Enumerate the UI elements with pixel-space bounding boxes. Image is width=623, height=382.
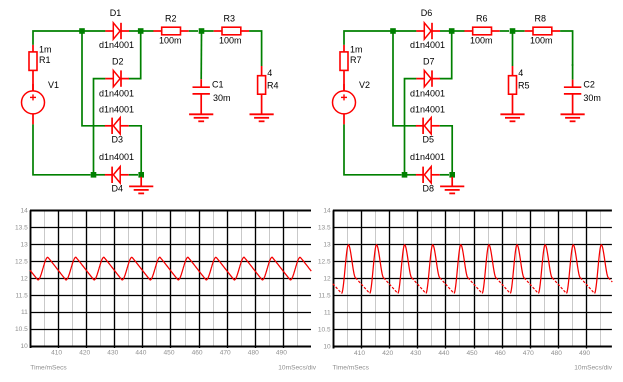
svg-text:440: 440	[135, 350, 146, 357]
resistor R2 (100m)	[153, 27, 188, 35]
svg-text:30m: 30m	[583, 93, 601, 103]
svg-text:Time/mSecs: Time/mSecs	[333, 364, 370, 371]
diode D7	[416, 70, 440, 86]
wire	[189, 30, 198, 32]
diode D4	[105, 167, 129, 183]
svg-text:10mSecs/div: 10mSecs/div	[278, 364, 316, 371]
node A2 junction	[390, 28, 396, 34]
wire	[143, 30, 154, 32]
node B1 junction	[138, 28, 144, 34]
svg-text:430: 430	[410, 350, 421, 357]
svg-text:R1: R1	[39, 55, 51, 65]
svg-text:1m: 1m	[350, 44, 363, 54]
resistor R7 (1m)	[340, 45, 348, 92]
wire	[33, 31, 82, 45]
right graph y-axis labels	[318, 208, 331, 351]
wire	[200, 34, 202, 80]
left graph waveform trace	[30, 257, 311, 280]
left graph panel	[15, 207, 317, 371]
diode D1	[105, 23, 129, 39]
svg-text:10.5: 10.5	[15, 326, 28, 333]
svg-text:450: 450	[466, 350, 477, 357]
ground (C1)	[189, 114, 213, 121]
wire	[440, 174, 449, 176]
ground (C2)	[561, 114, 585, 121]
wire	[249, 31, 262, 66]
svg-text:R4: R4	[267, 81, 279, 91]
svg-text:430: 430	[107, 350, 118, 357]
svg-text:R2: R2	[165, 14, 177, 24]
svg-text:420: 420	[79, 350, 90, 357]
svg-text:10: 10	[323, 344, 331, 351]
svg-text:100m: 100m	[159, 35, 182, 45]
svg-text:d1n4001: d1n4001	[410, 88, 445, 98]
svg-text:12: 12	[20, 275, 28, 282]
ground (R4)	[250, 114, 274, 121]
svg-text:12: 12	[323, 276, 331, 283]
svg-text:450: 450	[163, 350, 174, 357]
wire	[94, 79, 106, 175]
svg-text:11: 11	[21, 309, 28, 316]
svg-text:C1: C1	[212, 80, 224, 90]
left rectifier circuit	[22, 8, 279, 194]
right graph waveform trace	[342, 245, 609, 294]
svg-text:440: 440	[438, 350, 449, 357]
svg-text:11.5: 11.5	[15, 292, 28, 299]
svg-text:d1n4001: d1n4001	[99, 88, 134, 98]
svg-text:480: 480	[248, 350, 259, 357]
svg-text:R3: R3	[224, 14, 236, 24]
resistor R8 (100m)	[525, 27, 560, 35]
svg-text:R8: R8	[535, 14, 547, 24]
wire	[407, 174, 416, 176]
svg-text:420: 420	[382, 350, 393, 357]
svg-text:4: 4	[267, 68, 272, 78]
left graph x-axis labels	[51, 350, 287, 357]
ground (R5)	[500, 114, 524, 121]
svg-text:d1n4001: d1n4001	[99, 40, 134, 50]
node B2 junction	[449, 28, 455, 34]
svg-text:460: 460	[495, 350, 506, 357]
svg-text:R6: R6	[476, 14, 488, 24]
svg-text:10: 10	[20, 343, 28, 350]
svg-text:D7: D7	[423, 56, 435, 66]
wire	[440, 34, 452, 79]
wire	[395, 30, 416, 32]
svg-text:d1n4001: d1n4001	[410, 105, 445, 115]
svg-text:D1: D1	[110, 8, 122, 18]
right graph grid	[333, 210, 612, 348]
wire (ground stub)	[140, 177, 142, 187]
svg-text:410: 410	[354, 350, 365, 357]
svg-text:d1n4001: d1n4001	[99, 105, 134, 115]
voltage source V2	[333, 84, 356, 125]
wire	[204, 30, 214, 32]
wire	[512, 34, 514, 67]
right rectifier circuit	[333, 8, 601, 194]
svg-text:1m: 1m	[39, 44, 52, 54]
node E1 junction	[91, 172, 97, 178]
svg-text:12.5: 12.5	[15, 258, 28, 265]
wire	[500, 30, 509, 32]
node A1 junction	[79, 28, 85, 34]
resistor R5 (4)	[509, 66, 517, 114]
wire	[515, 30, 525, 32]
wire	[96, 174, 105, 176]
svg-text:R7: R7	[350, 55, 362, 65]
diode D8	[416, 167, 440, 183]
node C2 junction	[510, 28, 516, 34]
voltage source V1	[22, 84, 45, 125]
wire	[572, 64, 574, 80]
svg-text:D3: D3	[112, 134, 124, 144]
svg-text:11: 11	[324, 310, 331, 317]
capacitor C1 (30m)	[193, 79, 210, 114]
left graph y-axis labels	[15, 207, 28, 350]
svg-text:13.5: 13.5	[15, 224, 28, 231]
wire	[129, 174, 138, 176]
svg-text:d1n4001: d1n4001	[99, 152, 134, 162]
svg-text:10.5: 10.5	[318, 327, 331, 334]
wire (ground stub)	[451, 177, 453, 187]
resistor R3 (100m)	[214, 27, 249, 35]
svg-text:13.5: 13.5	[318, 225, 331, 232]
svg-text:D6: D6	[421, 8, 433, 18]
svg-text:D8: D8	[423, 184, 435, 194]
right graph x-axis labels	[354, 350, 590, 357]
svg-text:Time/mSecs: Time/mSecs	[30, 364, 67, 371]
wire	[129, 34, 141, 79]
diode D3	[105, 118, 129, 134]
svg-text:100m: 100m	[530, 35, 553, 45]
svg-text:d1n4001: d1n4001	[410, 152, 445, 162]
svg-text:C2: C2	[583, 80, 595, 90]
wire	[454, 30, 465, 32]
svg-text:D5: D5	[423, 134, 435, 144]
resistor R6 (100m)	[464, 27, 499, 35]
capacitor C2 (30m)	[564, 80, 581, 115]
diode D5	[416, 118, 440, 134]
ground (bridge D8)	[440, 186, 464, 193]
wire	[560, 31, 573, 66]
svg-text:R5: R5	[518, 81, 530, 91]
svg-text:490: 490	[579, 350, 590, 357]
svg-text:490: 490	[276, 350, 287, 357]
wire	[440, 126, 452, 172]
wire	[440, 30, 449, 32]
resistor R4 (4)	[258, 66, 266, 114]
svg-text:13: 13	[20, 241, 28, 248]
svg-text:11.5: 11.5	[318, 293, 331, 300]
left graph grid	[30, 210, 311, 348]
svg-text:410: 410	[51, 350, 62, 357]
svg-text:100m: 100m	[219, 35, 242, 45]
svg-text:V2: V2	[359, 80, 370, 90]
wire	[405, 79, 417, 175]
svg-text:14: 14	[20, 207, 28, 214]
diode D6	[416, 23, 440, 39]
svg-text:d1n4001: d1n4001	[410, 40, 445, 50]
svg-text:10mSecs/div: 10mSecs/div	[574, 364, 612, 371]
svg-text:470: 470	[220, 350, 231, 357]
ground (bridge D4)	[129, 186, 153, 193]
svg-text:D2: D2	[112, 56, 124, 66]
wire	[344, 31, 393, 45]
node D1 junction	[138, 172, 144, 178]
diode D2	[105, 70, 129, 86]
svg-text:460: 460	[192, 350, 203, 357]
svg-text:V1: V1	[48, 80, 59, 90]
wire	[393, 34, 416, 126]
node E2 junction	[402, 172, 408, 178]
resistor R1 (1m)	[29, 45, 37, 92]
svg-text:4: 4	[518, 68, 523, 78]
wire	[33, 124, 91, 174]
svg-text:13: 13	[323, 242, 331, 249]
right graph panel	[318, 208, 613, 372]
wire	[129, 30, 138, 32]
svg-text:12.5: 12.5	[318, 259, 331, 266]
svg-text:14: 14	[323, 208, 331, 215]
wire	[344, 124, 402, 174]
svg-text:D4: D4	[112, 184, 124, 194]
wire	[129, 126, 141, 172]
node C1 junction	[199, 28, 205, 34]
svg-text:100m: 100m	[470, 35, 493, 45]
svg-text:30m: 30m	[213, 93, 231, 103]
wire	[82, 34, 105, 126]
node D2 junction	[449, 172, 455, 178]
svg-text:470: 470	[523, 350, 534, 357]
svg-text:480: 480	[551, 350, 562, 357]
wire	[84, 30, 105, 32]
